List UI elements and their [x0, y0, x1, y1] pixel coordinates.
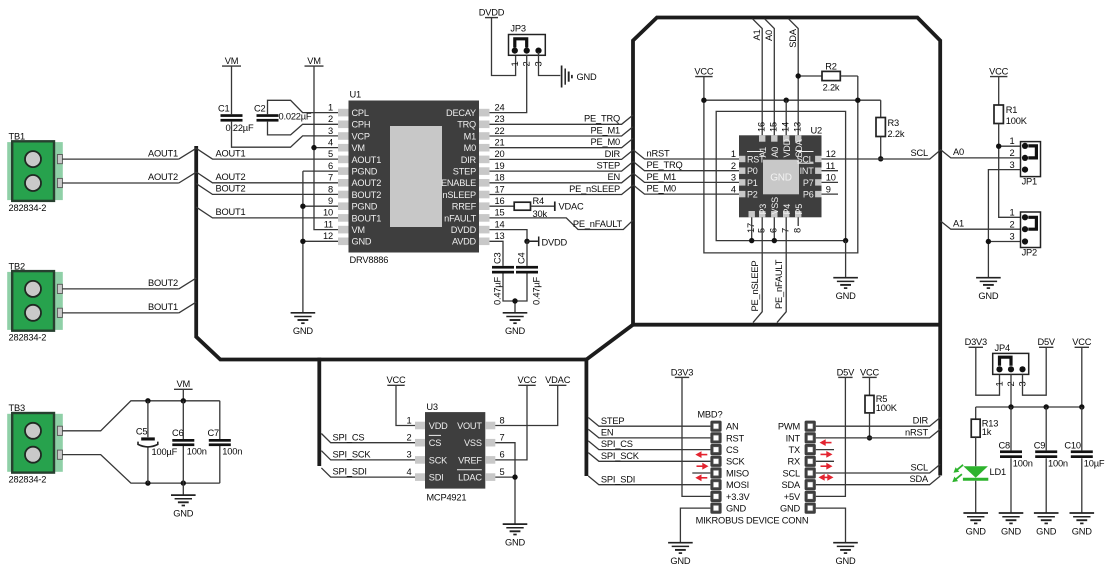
svg-text:JP3: JP3	[510, 24, 525, 34]
svg-text:0.22µF: 0.22µF	[226, 123, 254, 133]
svg-text:100K: 100K	[876, 403, 898, 413]
svg-text:P3: P3	[758, 204, 768, 215]
wire LED cathode to ground	[975, 481, 977, 513]
svg-text:CS: CS	[429, 438, 441, 448]
ground symbol below left header	[668, 542, 693, 544]
U3 CS overline	[429, 434, 441, 436]
svg-text:SPI_CS: SPI_CS	[333, 432, 365, 442]
svg-text:D3V3: D3V3	[965, 337, 987, 347]
svg-text:GND: GND	[1036, 526, 1057, 536]
svg-text:LD1: LD1	[990, 467, 1006, 477]
U1 pin 11 (VM) stub	[338, 226, 349, 234]
junction VCC rail	[701, 98, 706, 103]
wire STEP from U1 to section bus	[490, 162, 634, 171]
wire BOUT1 bus to U1 pin10	[196, 207, 338, 218]
svg-text:A1: A1	[953, 218, 964, 228]
wire SPI_SCK from section bus to U3	[321, 451, 415, 460]
svg-text:+3.3V: +3.3V	[726, 492, 751, 502]
svg-text:13: 13	[495, 231, 505, 241]
svg-text:A1: A1	[752, 29, 762, 40]
section boundary (DAC section left edge)	[317, 358, 321, 466]
resistor R13 1k	[975, 407, 977, 419]
svg-text:BOUT1: BOUT1	[216, 207, 246, 217]
svg-text:2.2k: 2.2k	[888, 129, 905, 139]
wire U1 PGND/GND pins to ground	[303, 171, 338, 313]
U3 pin 5 (LDAC) stub	[485, 473, 495, 481]
svg-text:nRST: nRST	[905, 427, 928, 437]
svg-text:16: 16	[756, 122, 766, 132]
capacitor C6 100n	[182, 401, 184, 483]
svg-text:VCC: VCC	[386, 375, 406, 385]
svg-text:PE_nSLEEP: PE_nSLEEP	[750, 261, 760, 312]
svg-text:AVDD: AVDD	[452, 237, 477, 247]
svg-text:C5: C5	[136, 426, 148, 436]
svg-text:282834-2: 282834-2	[9, 333, 47, 343]
svg-text:A0: A0	[953, 147, 964, 157]
svg-text:100n: 100n	[1013, 458, 1033, 468]
U1 pin 8 (BOUT2) stub	[338, 191, 349, 199]
svg-text:SCL: SCL	[911, 462, 929, 472]
wire U3 VREF to VCC flag	[495, 385, 527, 460]
U1 pin 23 (TRQ) stub	[479, 121, 490, 129]
junction R1/JP1	[996, 144, 1001, 149]
svg-text:PE_nFAULT: PE_nFAULT	[774, 259, 784, 309]
wire SPI_CS from section bus to U3	[321, 434, 415, 443]
capacitor C8 100n	[1010, 407, 1012, 513]
svg-text:SDA: SDA	[788, 28, 798, 48]
svg-text:1: 1	[731, 149, 736, 159]
wire PE_TRQ from U1 to section bus	[490, 115, 634, 124]
svg-text:C10: C10	[1064, 440, 1080, 450]
svg-text:VCC: VCC	[1072, 337, 1092, 347]
svg-text:100n: 100n	[222, 446, 242, 456]
svg-text:24: 24	[495, 102, 505, 112]
wire BOUT2 bus to U1 pin8	[196, 184, 338, 195]
U1 pin 20 (DIR) stub	[479, 156, 490, 164]
terminal block TB3 282834-2	[7, 414, 63, 472]
U1 pin 19 (STEP) stub	[479, 167, 490, 175]
svg-text:R1: R1	[1006, 105, 1018, 115]
svg-text:R2: R2	[825, 61, 837, 71]
svg-text:C7: C7	[208, 428, 220, 438]
svg-text:M1: M1	[464, 131, 476, 141]
junction VM rail	[181, 398, 186, 403]
svg-text:MOSI: MOSI	[726, 480, 749, 490]
junction R3 to SCL	[878, 156, 883, 161]
section boundary polygon (port-expander section)	[633, 18, 940, 476]
svg-text:A0: A0	[770, 147, 780, 158]
left header pin 1 (AN)	[710, 421, 721, 432]
svg-text:PGND: PGND	[352, 202, 378, 212]
svg-text:11: 11	[826, 161, 835, 171]
svg-text:PE_M1: PE_M1	[591, 125, 621, 135]
svg-text:0.47µF: 0.47µF	[532, 277, 542, 305]
U1 pin 21 (M0) stub	[479, 144, 490, 152]
svg-text:100n: 100n	[1048, 458, 1068, 468]
right header pin 6 (SDA)	[805, 479, 816, 490]
wire U3 VOUT to VDAC flag	[495, 385, 557, 425]
wire D3V3 to JP4 pin1	[976, 347, 1000, 395]
svg-text:PE_nSLEEP: PE_nSLEEP	[569, 184, 620, 194]
svg-text:16: 16	[495, 196, 505, 206]
U2 pin 13 (SDA) stub	[795, 135, 801, 141]
svg-text:C1: C1	[218, 104, 230, 114]
ground symbol below C3 C4	[503, 312, 528, 314]
svg-text:SPI_SDI: SPI_SDI	[601, 474, 635, 484]
wire VCC to R1	[998, 77, 1000, 105]
svg-text:PE_TRQ: PE_TRQ	[647, 160, 683, 170]
junction GND pin12	[300, 239, 305, 244]
svg-text:P0: P0	[747, 166, 758, 176]
svg-text:1: 1	[1010, 136, 1015, 146]
svg-text:SCK: SCK	[726, 457, 746, 467]
svg-text:DVDD: DVDD	[451, 225, 477, 235]
svg-text:VDD: VDD	[429, 421, 448, 431]
svg-text:3: 3	[407, 450, 412, 460]
svg-text:DVDD: DVDD	[479, 8, 505, 18]
svg-text:TX: TX	[789, 445, 800, 455]
U3 pin 2 (CS) stub	[415, 439, 425, 447]
junction VCC/C10	[1079, 404, 1084, 409]
U2 pin 5 (P3) stub	[759, 211, 765, 217]
svg-text:VCC: VCC	[860, 367, 880, 377]
wire R5 to nRST net	[869, 413, 871, 438]
wire BOUT1 TB2 to bus	[62, 302, 196, 313]
svg-text:1: 1	[407, 415, 412, 425]
right header pin 3 (TX)	[805, 444, 816, 455]
capacitor C7 100n	[219, 401, 221, 483]
svg-text:17: 17	[746, 223, 756, 233]
svg-text:MBD?: MBD?	[697, 409, 722, 419]
wire AOUT2 bus to U1 pin7	[196, 172, 338, 183]
svg-text:1: 1	[328, 102, 333, 112]
U1 pin 1 (CPL) stub	[338, 109, 349, 117]
VDD rail / supply loop around U2	[704, 76, 881, 253]
wire BOUT2 TB2 to bus	[62, 278, 196, 289]
svg-text:DIR: DIR	[461, 155, 477, 165]
junction R2 to SDA	[796, 73, 801, 78]
svg-text:GND: GND	[836, 291, 857, 301]
svg-text:DIR: DIR	[605, 149, 621, 159]
wire right header GND pin to ground	[816, 508, 846, 543]
svg-text:9: 9	[826, 184, 831, 194]
U1 pin 9 (PGND) stub	[338, 202, 349, 210]
wire PE_M0 from U1 to section bus	[490, 138, 634, 147]
svg-text:8: 8	[792, 228, 802, 233]
svg-text:VCC: VCC	[694, 67, 714, 77]
svg-text:C2: C2	[254, 104, 266, 114]
svg-text:VM: VM	[352, 225, 365, 235]
svg-text:BOUT2: BOUT2	[148, 278, 178, 288]
svg-text:VM: VM	[307, 56, 321, 66]
svg-text:14: 14	[495, 219, 505, 229]
U3 pin 1 (VDD) stub	[415, 422, 425, 430]
U1 pin 3 (VCP) stub	[338, 132, 349, 140]
svg-text:GND: GND	[835, 556, 856, 566]
resistor R3 2.2k (SCL pullup)	[880, 100, 882, 117]
svg-text:DECAY: DECAY	[446, 108, 476, 118]
right header pin 8 (GND)	[805, 503, 816, 514]
MISO unconnected stub	[692, 472, 710, 474]
jumper JP4	[993, 353, 1029, 374]
svg-text:VM: VM	[352, 143, 365, 153]
svg-text:SCL: SCL	[911, 148, 929, 158]
wire nRST from section bus to U2	[633, 150, 739, 159]
wire GND loop to ground symbol	[845, 241, 847, 278]
U1 pin 17 (nSLEEP) stub	[479, 191, 490, 199]
U2 pin 4 (P2) stub	[739, 191, 745, 197]
svg-text:DRV8886: DRV8886	[350, 255, 389, 265]
wire R13 to LED	[975, 437, 977, 466]
svg-text:282834-2: 282834-2	[9, 475, 47, 485]
svg-text:CS: CS	[726, 445, 739, 455]
U3 pin 6 (VREF) stub	[485, 456, 495, 464]
svg-text:VCP: VCP	[352, 131, 370, 141]
junction R2 rail	[855, 98, 860, 103]
U2 unconnected stubs pins 8,9,10,11	[798, 171, 838, 226]
resistor R2 2.2k (SDA pullup)	[798, 75, 822, 77]
junction VM pin4	[311, 145, 316, 150]
svg-text:VREF: VREF	[458, 455, 482, 465]
ground symbol below right header	[833, 542, 858, 544]
U2 pin 3 (P1) stub	[739, 179, 745, 185]
wire U2 pad pin17 to GND loop	[751, 217, 753, 240]
junction LDAC/VSS	[512, 474, 517, 479]
ground symbol below C10	[1070, 512, 1095, 514]
wire JP4 pin3 to D5V	[1023, 347, 1047, 395]
svg-text:PE_M1: PE_M1	[647, 172, 677, 182]
U2 pin 9 (P6) stub	[815, 191, 821, 197]
svg-text:R3: R3	[888, 118, 900, 128]
svg-text:BOUT2: BOUT2	[216, 184, 246, 194]
svg-text:GND: GND	[726, 504, 747, 514]
svg-text:CPH: CPH	[352, 120, 371, 130]
svg-text:PE_nFAULT: PE_nFAULT	[573, 219, 623, 229]
capacitor C5 100uF (polarized)	[147, 401, 149, 483]
svg-text:8: 8	[500, 415, 505, 425]
svg-text:4: 4	[407, 467, 412, 477]
junction JP4 pin2/C8	[1008, 404, 1013, 409]
capacitor C10 10uF	[1081, 407, 1083, 513]
wire PE_TRQ from section bus to U2	[633, 161, 739, 170]
svg-text:GND: GND	[978, 291, 999, 301]
svg-text:DVDD: DVDD	[542, 237, 568, 247]
svg-text:12: 12	[826, 149, 836, 159]
svg-text:15: 15	[495, 208, 505, 218]
ground symbol (sideways) at JP3	[561, 66, 563, 88]
svg-text:3: 3	[731, 173, 736, 183]
wire left header GND pin to ground	[680, 508, 710, 543]
junction C5 bottom	[145, 480, 150, 485]
svg-text:RST: RST	[726, 433, 745, 443]
U2 pin 2 (P0) stub	[739, 168, 745, 174]
U2 pin 8 (P5) stub	[795, 211, 801, 217]
svg-text:282834-2: 282834-2	[9, 203, 47, 213]
svg-text:1: 1	[995, 382, 1005, 387]
wire SPI_SDI from section bus to U3	[321, 468, 415, 477]
svg-text:3: 3	[328, 126, 333, 136]
svg-text:GND: GND	[1072, 526, 1093, 536]
svg-text:10: 10	[323, 208, 333, 218]
svg-text:6: 6	[500, 450, 505, 460]
svg-text:PE_TRQ: PE_TRQ	[584, 114, 620, 124]
svg-text:6: 6	[769, 228, 779, 233]
svg-text:VM: VM	[225, 56, 239, 66]
U1 pin 10 (BOUT1) stub	[338, 214, 349, 222]
wire VCC to VDD rail	[703, 77, 705, 101]
wire VM to U1 pin4 and pin11	[314, 66, 338, 230]
svg-text:8: 8	[328, 184, 333, 194]
svg-text:EN: EN	[607, 172, 620, 182]
svg-text:BOUT1: BOUT1	[352, 213, 382, 223]
U2 pin 12 (SCL) stub	[815, 156, 821, 162]
right header pin 7 (+5V)	[805, 491, 816, 502]
svg-text:TB3: TB3	[9, 403, 25, 413]
IC U2 port expander body	[739, 135, 822, 217]
net flag DVDD at pin14	[527, 237, 539, 247]
U3 LDAC overline	[457, 469, 482, 471]
svg-text:22: 22	[495, 126, 505, 136]
ground symbol below C9	[1034, 512, 1059, 514]
wire PE_M1 from U1 to section bus	[490, 127, 634, 136]
svg-text:GND: GND	[577, 72, 598, 82]
svg-text:nFAULT: nFAULT	[444, 213, 476, 223]
svg-text:JP2: JP2	[1022, 248, 1037, 258]
net tie A1 through top boundary	[752, 19, 762, 136]
svg-text:C8: C8	[999, 440, 1011, 450]
svg-text:R4: R4	[533, 196, 545, 206]
TX RX unconnected stubs	[816, 450, 834, 462]
net tie A0 from bus to JP1	[940, 149, 1020, 158]
wire DIR from right header PWM to section bus	[816, 418, 940, 427]
svg-text:6: 6	[328, 161, 333, 171]
svg-text:10: 10	[826, 173, 836, 183]
wire nRST from right header INT to section bus	[816, 429, 940, 438]
svg-text:M0: M0	[464, 143, 476, 153]
wire C1 to U1 pin3 VCP	[232, 122, 339, 148]
wire U1 pin13 AVDD to C3	[490, 241, 504, 266]
U2 pin 6 (VSS) stub	[771, 211, 777, 217]
svg-text:7: 7	[780, 228, 790, 233]
svg-text:P6: P6	[803, 190, 814, 200]
svg-text:P2: P2	[747, 190, 758, 200]
svg-text:MISO: MISO	[726, 468, 749, 478]
wire JP3 pin3 to GND	[539, 52, 561, 76]
svg-text:3: 3	[1010, 232, 1015, 242]
wire PE_M0 from section bus to U2	[633, 185, 739, 194]
terminal block TB2 282834-2	[7, 272, 63, 330]
junction C3/C4 ground	[512, 298, 517, 303]
svg-text:GND: GND	[966, 526, 987, 536]
wire PE_nSLEEP from U2 pin5 to bottom boundary	[753, 217, 762, 322]
svg-text:100K: 100K	[1006, 116, 1028, 126]
U2 pin11 INT overline	[798, 162, 814, 164]
U1 pin 14 (DVDD) stub	[479, 226, 490, 234]
U1 pin 15 (nFAULT) stub	[479, 214, 490, 222]
junction R5/INT	[867, 435, 872, 440]
svg-text:VOUT: VOUT	[457, 421, 482, 431]
U2 pin 11 (INT) stub	[815, 168, 821, 174]
svg-text:U3: U3	[426, 402, 438, 412]
svg-text:ENABLE: ENABLE	[441, 178, 476, 188]
svg-text:4: 4	[328, 138, 333, 148]
svg-text:BOUT2: BOUT2	[352, 190, 382, 200]
svg-text:nSLEEP: nSLEEP	[442, 190, 476, 200]
net tie A0 through top boundary	[765, 19, 775, 136]
svg-text:GND: GND	[780, 504, 801, 514]
net flag VDAC at R4	[554, 202, 556, 212]
svg-text:TB1: TB1	[9, 132, 25, 142]
svg-text:PGND: PGND	[352, 167, 378, 177]
junction C9	[1044, 404, 1049, 409]
svg-text:1k: 1k	[982, 427, 992, 437]
svg-text:2: 2	[407, 433, 412, 443]
U1 pin 12 (GND) stub	[338, 238, 349, 246]
wire VM to C1	[231, 66, 233, 114]
svg-text:SPI_CS: SPI_CS	[601, 439, 633, 449]
capacitor C3 0.47uF	[492, 266, 514, 269]
jumper JP1	[1021, 142, 1041, 177]
svg-text:VDAC: VDAC	[559, 201, 585, 211]
wire VCC to R5	[869, 377, 871, 395]
U1 pin 13 (AVDD) stub	[479, 238, 490, 246]
junction VDD pin	[784, 98, 789, 103]
svg-text:PE_M0: PE_M0	[591, 137, 621, 147]
wire C3 C4 to ground	[503, 274, 527, 313]
wire D5V to +5V pin	[816, 377, 846, 496]
svg-text:C3: C3	[493, 252, 503, 264]
svg-text:4: 4	[731, 184, 736, 194]
svg-text:PWM: PWM	[778, 422, 800, 432]
right header pin 1 (PWM)	[805, 421, 816, 432]
net tie A1 from bus to JP2	[940, 221, 1020, 230]
svg-text:RREF: RREF	[452, 202, 477, 212]
left header pin 6 (MOSI)	[710, 479, 721, 490]
svg-text:GND: GND	[505, 537, 526, 547]
svg-text:5: 5	[756, 228, 766, 233]
svg-text:SDA: SDA	[781, 480, 801, 490]
svg-text:C6: C6	[172, 428, 184, 438]
jumper JP3	[509, 35, 546, 56]
junction DVDD node	[524, 239, 529, 244]
wire C2 bottom to U1 pin2 CPH	[268, 122, 339, 135]
svg-text:GND: GND	[293, 326, 314, 336]
wire DVDD to JP3 pin1	[492, 18, 516, 76]
wire TB3 bottom to ground rail	[62, 455, 219, 484]
svg-text:LDAC: LDAC	[458, 473, 482, 483]
svg-text:SPI_SCK: SPI_SCK	[333, 450, 372, 460]
svg-text:TRQ: TRQ	[457, 120, 476, 130]
junction gnd rail	[181, 480, 186, 485]
svg-text:INT: INT	[786, 433, 801, 443]
svg-text:VSS: VSS	[464, 438, 482, 448]
svg-text:10µF: 10µF	[1084, 458, 1105, 468]
svg-text:2: 2	[328, 114, 333, 124]
wire STEP from section bus to left header	[588, 418, 710, 427]
svg-text:C4: C4	[517, 252, 527, 264]
svg-text:MIKROBUS DEVICE CONN: MIKROBUS DEVICE CONN	[696, 515, 809, 525]
svg-text:STEP: STEP	[601, 416, 624, 426]
svg-text:+5V: +5V	[784, 492, 801, 502]
svg-text:CPL: CPL	[352, 108, 369, 118]
svg-text:MCP4921: MCP4921	[426, 492, 466, 502]
wire R1 to JP1 pin1 and JP2 pin1	[999, 124, 1021, 218]
svg-text:AOUT1: AOUT1	[352, 155, 382, 165]
left header pin 3 (CS)	[710, 444, 721, 455]
LED light arrows	[957, 465, 963, 470]
U3 pin 8 (VOUT) stub	[485, 422, 495, 430]
ground symbol below JP2	[976, 277, 1001, 279]
